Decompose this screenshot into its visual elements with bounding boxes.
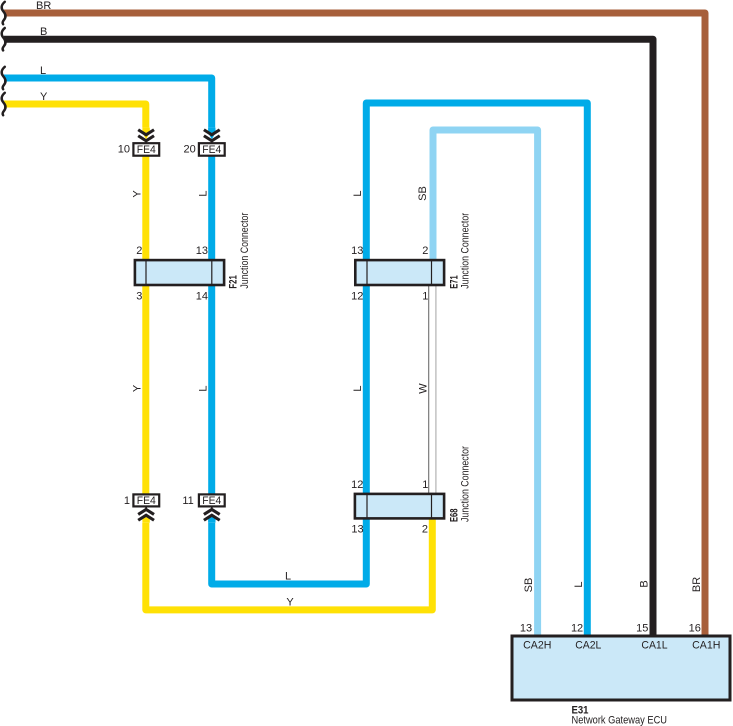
svg-text:SB: SB	[417, 186, 429, 201]
svg-text:L: L	[352, 385, 364, 391]
svg-text:2: 2	[136, 245, 142, 257]
svg-text:CA2L: CA2L	[575, 639, 601, 651]
junction connector E68	[355, 494, 444, 519]
svg-text:13: 13	[520, 622, 532, 634]
svg-text:B: B	[40, 26, 47, 38]
svg-text:L: L	[197, 385, 209, 391]
wire B (black, CA1L)	[4, 39, 653, 637]
svg-text:12: 12	[351, 479, 363, 491]
wire tip L from FE4 pin11	[208, 515, 215, 523]
connector FE4 pin 11 (box)	[182, 494, 224, 507]
wire L (blue CAN line through F21, E68, E71 to CA2L)	[4, 78, 587, 637]
wire break squiggle BR	[2, 2, 6, 24]
svg-text:FE4: FE4	[137, 495, 156, 507]
svg-text:13: 13	[196, 245, 208, 257]
connector FE4 pin 10 (box)	[118, 143, 159, 156]
svg-text:12: 12	[351, 290, 363, 302]
svg-text:Y: Y	[286, 596, 294, 608]
junction connector E71	[355, 260, 444, 285]
connector FE4 pin 1 (box)	[124, 494, 159, 507]
svg-text:1: 1	[422, 290, 428, 302]
svg-text:L: L	[285, 570, 291, 582]
svg-text:SB: SB	[523, 578, 535, 593]
svg-text:11: 11	[182, 495, 193, 507]
wire SB (sky blue, E71 pin 2 to CA2H)	[433, 130, 538, 637]
wire tip L into FE4 pin20	[208, 128, 215, 140]
svg-text:L: L	[40, 65, 46, 77]
wire tip Y into FE4 pin10	[142, 128, 149, 140]
svg-text:10: 10	[118, 144, 130, 156]
white gap under chevrons FE4 top	[137, 128, 156, 144]
svg-text:FE4: FE4	[137, 144, 156, 156]
svg-text:3: 3	[136, 290, 142, 302]
svg-text:1: 1	[422, 479, 428, 491]
connector arrows FE4 pin20 (double chevron down)	[204, 130, 220, 143]
wire break squiggle Y	[2, 93, 6, 115]
wire W (white with gray outline, E71 pin 1 to E68 pin 1)	[429, 282, 436, 496]
svg-text:2: 2	[422, 245, 428, 257]
svg-text:CA1L: CA1L	[641, 639, 667, 651]
ECU E31 box	[512, 636, 730, 700]
svg-text:Junction Connector: Junction Connector	[239, 212, 251, 288]
svg-text:Network Gateway ECU: Network Gateway ECU	[572, 714, 668, 726]
svg-text:Junction Connector: Junction Connector	[460, 446, 472, 522]
svg-text:1: 1	[124, 495, 130, 507]
svg-text:20: 20	[184, 144, 196, 156]
svg-text:FE4: FE4	[202, 495, 221, 507]
wire break squiggle B	[2, 28, 6, 50]
svg-text:BR: BR	[691, 577, 703, 592]
svg-text:F21: F21	[228, 275, 240, 289]
svg-text:B: B	[639, 580, 651, 587]
svg-text:12: 12	[571, 622, 583, 634]
svg-text:L: L	[197, 190, 209, 196]
svg-text:L: L	[352, 190, 364, 196]
connector FE4 pin 20 (box)	[184, 143, 225, 156]
wire break squiggle L	[2, 67, 6, 89]
junction connector F21	[135, 260, 224, 285]
svg-text:Junction Connector: Junction Connector	[460, 213, 472, 289]
svg-text:2: 2	[422, 524, 428, 536]
connector arrows FE4 pin11 (double chevron up)	[204, 507, 220, 520]
svg-text:FE4: FE4	[202, 144, 221, 156]
svg-text:E71: E71	[448, 275, 460, 289]
svg-text:Y: Y	[131, 190, 143, 198]
svg-text:13: 13	[351, 524, 363, 536]
connector arrows FE4 pin1 (double chevron up)	[138, 507, 154, 520]
svg-text:14: 14	[196, 290, 208, 302]
svg-text:13: 13	[351, 245, 363, 257]
svg-text:Y: Y	[131, 384, 143, 392]
svg-text:BR: BR	[36, 0, 51, 12]
svg-text:CA2H: CA2H	[523, 639, 551, 651]
svg-text:L: L	[573, 581, 585, 587]
svg-text:Y: Y	[40, 91, 48, 103]
svg-text:W: W	[417, 383, 429, 394]
svg-text:16: 16	[689, 622, 701, 634]
svg-text:15: 15	[636, 622, 648, 634]
connector arrows FE4 pin10 (double chevron down)	[138, 130, 154, 143]
wire tip Y from FE4 pin1	[142, 515, 149, 523]
white gap under chevrons FE4 bottom	[137, 507, 156, 523]
svg-text:CA1H: CA1H	[692, 639, 720, 651]
svg-text:E68: E68	[448, 509, 460, 523]
wire Y (yellow through F21 to E68 pin 2)	[4, 104, 432, 610]
